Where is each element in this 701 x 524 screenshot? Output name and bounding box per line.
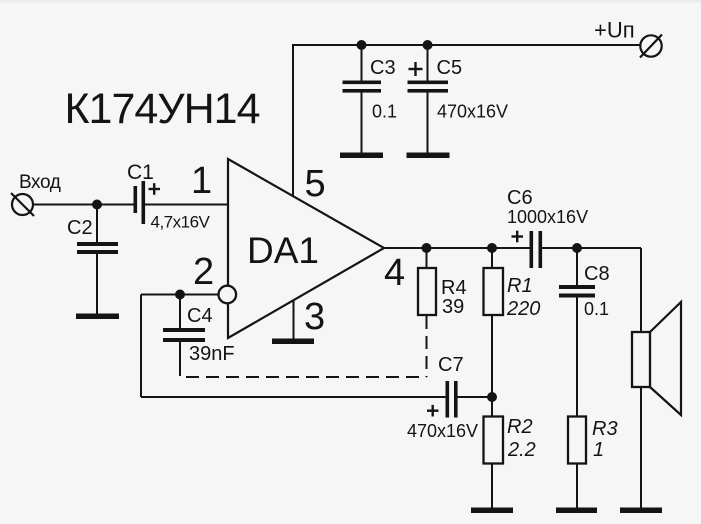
pin 5 wire [292, 45, 294, 196]
capacitor C8 [559, 285, 595, 298]
svg-text:5: 5 [305, 163, 326, 205]
wire C8 to R3 [576, 298, 578, 417]
wire pin 2 [141, 294, 220, 296]
svg-text:C6: C6 [507, 187, 533, 209]
C6 plus sign [512, 231, 524, 243]
svg-text:220: 220 [506, 298, 540, 320]
wire power rail [292, 44, 640, 46]
resistor R2 [484, 417, 504, 464]
wire C8 top lead [576, 248, 578, 285]
node C5 junction [423, 40, 433, 50]
svg-text:1000x16V: 1000x16V [507, 207, 588, 227]
wire speaker branch down [640, 248, 642, 508]
wire R4 dashed lead [426, 316, 428, 377]
wire C2 bottom lead [96, 254, 98, 314]
wire feedback horizontal [141, 396, 446, 398]
wire R1 bottom lead [491, 315, 493, 397]
svg-text:470x16V: 470x16V [407, 421, 478, 441]
resistor R1 [484, 268, 504, 315]
ground R3 [556, 508, 597, 514]
ground speaker [620, 508, 662, 514]
wire R2 bottom lead [491, 464, 493, 509]
node pin 2 junction [175, 290, 185, 300]
capacitor C6 [530, 231, 543, 268]
power connector [640, 35, 662, 58]
svg-text:+Uп: +Uп [594, 18, 635, 43]
op-amp DA1 triangle [228, 159, 384, 338]
wire C1 to pin 1 [145, 204, 228, 206]
speaker BA1 [632, 302, 681, 415]
node R4 junction [422, 243, 432, 253]
node output junction [572, 243, 582, 253]
svg-text:DA1: DA1 [247, 230, 319, 271]
svg-text:R3: R3 [592, 418, 618, 440]
wire R4 top lead [426, 248, 428, 268]
svg-text:4,7x16V: 4,7x16V [151, 213, 211, 232]
capacitor C1 [134, 181, 146, 224]
ground R2 [471, 508, 513, 514]
capacitor C2 [77, 242, 118, 254]
wire R1 top lead [491, 248, 493, 268]
wire C2 top lead [96, 205, 98, 243]
capacitor C3 [343, 81, 382, 93]
svg-text:470x16V: 470x16V [437, 102, 508, 122]
svg-text:Вход: Вход [19, 172, 61, 193]
svg-text:2: 2 [193, 251, 214, 293]
input connector X1 [11, 193, 34, 216]
svg-text:C7: C7 [438, 354, 464, 376]
C7 plus sign [427, 405, 439, 417]
wire pin 3 stub [293, 301, 295, 339]
ground pin 3 [272, 339, 314, 345]
svg-text:0.1: 0.1 [372, 102, 397, 122]
C5 plus sign [409, 62, 423, 76]
svg-text:39: 39 [442, 296, 464, 318]
wire C3 bottom lead [361, 92, 363, 153]
svg-text:1: 1 [593, 439, 604, 461]
svg-text:3: 3 [304, 296, 325, 338]
svg-text:0.1: 0.1 [584, 299, 609, 319]
capacitor C7 [446, 381, 458, 418]
ground C2 [76, 314, 119, 320]
wire input to C1 [33, 204, 134, 206]
wire C3 top lead [361, 45, 363, 81]
resistor R3 [568, 417, 586, 464]
svg-text:C4: C4 [187, 305, 213, 327]
wire output from pin 4 [384, 247, 530, 249]
wire feedback vertical [140, 295, 142, 398]
svg-text:39nF: 39nF [189, 343, 235, 365]
node C3 junction [357, 40, 367, 50]
svg-text:C8: C8 [584, 263, 610, 285]
wire C6 to speaker branch [542, 247, 641, 249]
svg-text:C5: C5 [437, 57, 463, 79]
C1 plus sign [149, 183, 161, 195]
wire dashed C4 to R4 [180, 363, 427, 377]
capacitor C5 [408, 81, 449, 93]
svg-text:C2: C2 [67, 217, 93, 239]
wire R3 bottom lead [576, 464, 578, 509]
svg-text:C1: C1 [127, 161, 154, 184]
wire C5 top lead [427, 45, 429, 81]
wire R2 top lead [491, 397, 493, 417]
wire C4 bottom lead [179, 342, 181, 363]
ground C3 [340, 153, 383, 159]
ground C5 [407, 153, 450, 159]
node input junction [92, 200, 102, 210]
svg-text:C3: C3 [370, 57, 396, 79]
svg-text:R1: R1 [507, 275, 533, 297]
wire C7 to node [458, 396, 493, 398]
svg-text:4: 4 [384, 252, 405, 294]
resistor R4 [418, 268, 436, 315]
node R1 junction [487, 243, 497, 253]
svg-text:К174УН14: К174УН14 [65, 85, 260, 133]
svg-text:R2: R2 [507, 416, 533, 438]
wire C5 bottom lead [427, 92, 429, 153]
capacitor C4 [163, 328, 205, 342]
pin 2 inverting bubble [219, 286, 237, 304]
wire C4 top lead [179, 295, 181, 329]
node feedback junction [487, 392, 497, 402]
svg-text:1: 1 [191, 160, 212, 202]
svg-text:2.2: 2.2 [507, 439, 536, 461]
